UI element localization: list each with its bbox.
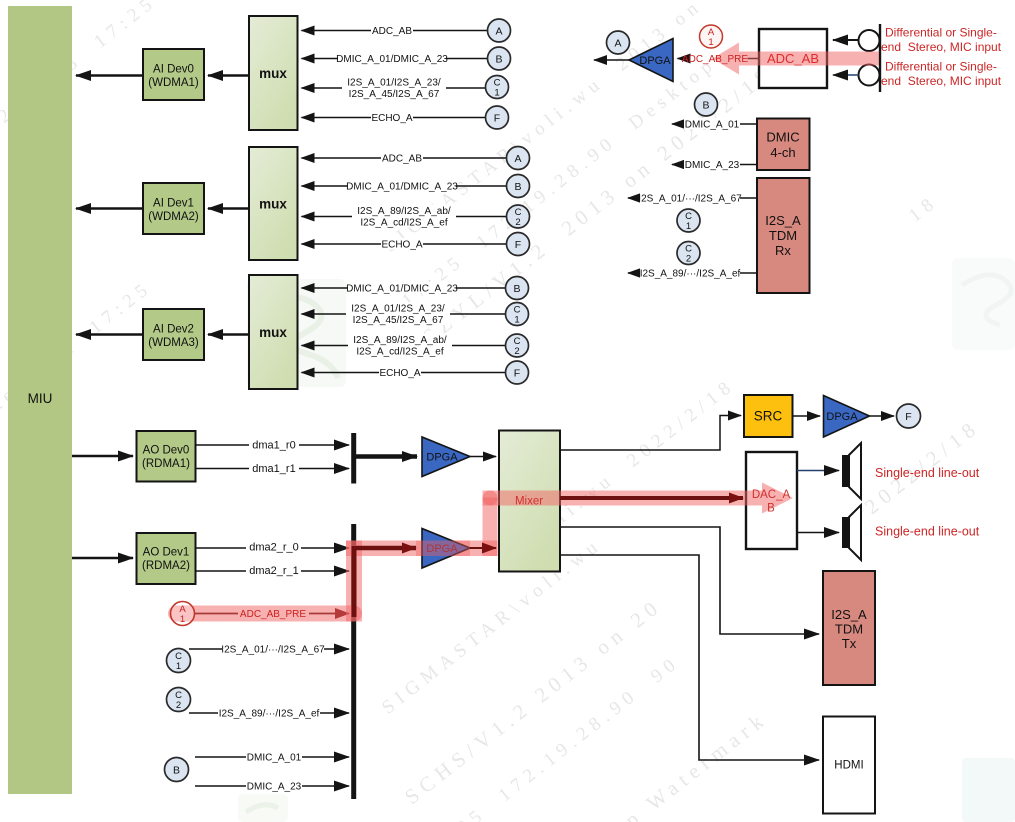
svg-text:B: B: [173, 764, 180, 776]
svg-text:1: 1: [180, 614, 185, 625]
svg-text:4-ch: 4-ch: [770, 145, 795, 160]
svg-text:ECHO_A: ECHO_A: [379, 368, 420, 379]
wire ADC_AB into mux1: [302, 30, 488, 32]
svg-text:mux: mux: [259, 66, 287, 81]
node A (mux2): [507, 147, 530, 170]
svg-text:AI Dev1: AI Dev1: [153, 198, 194, 210]
svg-text:A: A: [514, 153, 521, 165]
watermark text layer: [0, 0, 162, 147]
svg-text:DPGA: DPGA: [639, 55, 671, 67]
svg-text:B: B: [767, 503, 775, 515]
op-amp DPGA (input stage, points left): [629, 39, 673, 82]
mic input circle 2: [859, 65, 880, 86]
wire dma2_r_0: [196, 547, 350, 549]
wire AI Dev2 to MIU: [76, 333, 143, 336]
bus bar 2: [351, 524, 356, 799]
svg-text:TDM: TDM: [769, 228, 797, 243]
svg-text:(WDMA2): (WDMA2): [148, 211, 199, 223]
svg-text:(RDMA2): (RDMA2): [142, 560, 190, 572]
svg-text:DPGA: DPGA: [426, 452, 458, 464]
svg-text:Single-end line-out: Single-end line-out: [875, 466, 980, 480]
svg-text:2: 2: [514, 346, 519, 357]
block I2S_A TDM Tx: [823, 571, 875, 685]
svg-text:2: 2: [515, 217, 520, 228]
wire I2S_A_01..67 into mux3: [302, 313, 506, 315]
svg-text:Differential or Single-: Differential or Single-: [885, 26, 997, 40]
op-amp DPGA (playback path 2, highlighted): [422, 529, 470, 569]
block AI Dev1 (WDMA2): [143, 183, 204, 234]
wire DMIC_A_01/DMIC_A_23 into mux2: [302, 185, 507, 187]
wire mic1 to ADC_AB: [833, 39, 859, 41]
svg-text:mux: mux: [259, 197, 287, 212]
faint logo watermark bottom-right corner: [962, 758, 1015, 822]
wire DMIC_A_01/DMIC_A_23 into mux3: [302, 287, 506, 289]
block AI Dev0 (WDMA1): [143, 49, 204, 100]
node C1 (bottom): [167, 649, 191, 673]
dark red overlay on bus2: [352, 546, 357, 617]
svg-text:DAC_A: DAC_A: [752, 489, 791, 501]
wire DPGA output to node A: [594, 59, 629, 61]
svg-text:dma1_r0: dma1_r0: [252, 440, 295, 452]
highlight band over DPGA2: [416, 541, 470, 557]
wire ADC_AB_PRE to bus2 (under highlight): [195, 613, 239, 615]
mic input bus line: [879, 24, 881, 92]
svg-text:1: 1: [514, 315, 519, 326]
wire DAC to speaker 2: [797, 532, 839, 534]
svg-text:AI Dev2: AI Dev2: [153, 324, 194, 336]
block AO Dev1 (RDMA2): [137, 533, 196, 584]
svg-text:DMIC_A_01/DMIC_A_23: DMIC_A_01/DMIC_A_23: [346, 182, 458, 193]
wire DMIC_A_23 out: [672, 164, 757, 166]
svg-text:I2S_A_45/I2S_A_67: I2S_A_45/I2S_A_67: [353, 315, 444, 326]
svg-text:DMIC_A_23: DMIC_A_23: [247, 782, 302, 793]
block AO Dev0 (RDMA1): [137, 431, 196, 482]
svg-text:I2S_A_01/···/I2S_A_67: I2S_A_01/···/I2S_A_67: [638, 194, 742, 205]
svg-text:ECHO_A: ECHO_A: [371, 113, 412, 124]
wire AI Dev0 to MIU: [76, 74, 143, 77]
svg-text:1: 1: [494, 88, 499, 99]
block Mixer: [499, 431, 560, 572]
highlight band ADC_AB_PRE (top): [713, 43, 880, 75]
svg-text:AI Dev0: AI Dev0: [153, 64, 194, 76]
svg-text:AO Dev0: AO Dev0: [143, 445, 190, 457]
svg-text:(RDMA1): (RDMA1): [142, 458, 190, 470]
speaker 2: [842, 505, 861, 560]
node C2 (mux3): [506, 334, 529, 357]
wire ECHO_A into mux3: [302, 372, 506, 374]
wire dma1_r1: [196, 468, 350, 470]
block DAC_AB: [746, 452, 797, 549]
node F (output): [897, 404, 921, 428]
wire I2S_A_89..ef into mux3: [302, 345, 506, 347]
svg-text:2: 2: [176, 700, 181, 711]
wire DMIC_A_23 to bus2: [195, 785, 349, 787]
svg-text:A: A: [614, 37, 621, 49]
svg-text:I2S_A_89/I2S_A_ab/: I2S_A_89/I2S_A_ab/: [353, 335, 447, 346]
block SRC: [744, 395, 793, 437]
svg-text:dma2_r_0: dma2_r_0: [249, 542, 299, 554]
svg-text:B: B: [702, 99, 709, 111]
faint logo watermark right edge: [952, 258, 1015, 350]
svg-text:dma2_r_1: dma2_r_1: [249, 565, 299, 577]
svg-text:ECHO_A: ECHO_A: [381, 240, 422, 251]
svg-text:DMIC_A_01: DMIC_A_01: [685, 120, 740, 131]
node B (mux2): [507, 175, 530, 198]
svg-text:F: F: [515, 239, 521, 251]
svg-text:I2S_A_cd/I2S_A_ef: I2S_A_cd/I2S_A_ef: [360, 218, 448, 229]
svg-text:Differential or Single-: Differential or Single-: [885, 60, 997, 74]
node A (mux1): [488, 19, 511, 42]
svg-text:I2S_A_cd/I2S_A_ef: I2S_A_cd/I2S_A_ef: [356, 347, 444, 358]
svg-text:DMIC_A_23: DMIC_A_23: [685, 160, 740, 171]
wire dma2_r_1: [196, 570, 350, 572]
wire I2S_A_89..ef into mux2: [302, 216, 507, 218]
svg-text:ADC_AB_PRE: ADC_AB_PRE: [240, 609, 306, 620]
svg-text:I2S_A_45/I2S_A_67: I2S_A_45/I2S_A_67: [349, 89, 440, 100]
block DMIC 4-ch: [757, 119, 810, 171]
node A1 (bottom, red): [171, 602, 195, 626]
wire DPGA2 to Mixer (dark red): [470, 547, 496, 549]
block HDMI: [823, 717, 875, 814]
wire mux1 to AI Dev0: [208, 74, 249, 77]
node B (DMIC): [695, 93, 718, 116]
block mux3: [249, 275, 298, 389]
node F (mux3): [506, 361, 529, 384]
wire I2S_A_89...ef out: [628, 272, 757, 274]
node A (ADC output): [607, 31, 630, 54]
wire mux2 to AI Dev1: [208, 207, 249, 210]
highlight arrowhead into DAC_AB: [762, 483, 793, 514]
svg-text:TDM: TDM: [835, 622, 863, 637]
svg-text:F: F: [494, 112, 500, 124]
wire mux3 to AI Dev2: [208, 333, 249, 336]
svg-text:I2S_A_89/I2S_A_ab/: I2S_A_89/I2S_A_ab/: [357, 206, 451, 217]
svg-text:1: 1: [686, 221, 691, 232]
op-amp DPGA (SRC output): [824, 396, 870, 438]
wire SRC to DPGA3: [793, 415, 821, 417]
svg-text:Single-end line-out: Single-end line-out: [875, 525, 980, 539]
svg-text:ADC_AB: ADC_AB: [372, 26, 412, 37]
wire I2S_A_01...67 to bus2: [189, 648, 349, 650]
node B (mux1): [488, 47, 511, 70]
block mux1: [249, 16, 298, 130]
wire Mixer to DAC_AB (dark red): [560, 496, 743, 500]
block I2S_A TDM Rx: [757, 178, 810, 293]
node C2 (Rx): [677, 242, 700, 265]
svg-text:DMIC_A_01/DMIC_A_23: DMIC_A_01/DMIC_A_23: [336, 54, 448, 65]
MIU memory bar: [8, 6, 72, 794]
svg-text:DMIC: DMIC: [766, 130, 799, 145]
svg-text:DMIC_A_01/DMIC_A_23: DMIC_A_01/DMIC_A_23: [346, 284, 458, 295]
node F (mux2): [507, 233, 530, 256]
node C1 (mux3): [506, 303, 529, 326]
svg-text:ADC_AB_PRE: ADC_AB_PRE: [682, 54, 748, 65]
svg-text:B: B: [514, 181, 521, 193]
wire ADC_AB to DPGA (thin, under highlight): [748, 58, 760, 60]
svg-text:ADC_AB: ADC_AB: [767, 51, 819, 66]
svg-text:SRC: SRC: [754, 409, 783, 424]
wire I2S_A_89...ef to bus2: [189, 712, 349, 714]
op-amp DPGA (playback path 1): [422, 437, 470, 477]
svg-text:I2S_A_01/I2S_A_23/: I2S_A_01/I2S_A_23/: [351, 304, 445, 315]
wire DAC to speaker 1: [797, 470, 839, 472]
svg-text:1: 1: [708, 37, 713, 48]
svg-text:I2S_A: I2S_A: [765, 213, 801, 228]
svg-text:B: B: [513, 283, 520, 295]
svg-text:B: B: [495, 53, 502, 65]
node F (mux1): [486, 106, 509, 129]
svg-text:I2S_A_01/···/I2S_A_67: I2S_A_01/···/I2S_A_67: [221, 645, 325, 656]
wire DMIC_A_01 out: [672, 123, 757, 125]
svg-text:(WDMA1): (WDMA1): [148, 77, 199, 89]
svg-text:Mixer: Mixer: [515, 496, 543, 508]
svg-text:A: A: [495, 25, 502, 37]
node C1 (mux1): [486, 76, 509, 99]
wire bus2 to DPGA2 (dark red thick): [356, 546, 416, 551]
speaker 1: [842, 443, 861, 499]
block AI Dev2 (WDMA3): [143, 309, 204, 360]
svg-text:I2S_A_89/···/I2S_A_ef: I2S_A_89/···/I2S_A_ef: [219, 709, 320, 720]
node A1 (red): [700, 25, 723, 48]
wire DPGA3 to node F: [870, 415, 895, 417]
node B (bottom): [165, 758, 189, 782]
wire bus1 to DPGA (thick): [356, 454, 417, 459]
block mux2: [249, 147, 298, 260]
svg-text:ADC_AB: ADC_AB: [382, 154, 422, 165]
svg-text:Rx: Rx: [775, 243, 791, 258]
wire ADC_AB into mux2: [302, 157, 507, 159]
svg-text:I2S_A_01/I2S_A_23/: I2S_A_01/I2S_A_23/: [347, 78, 441, 89]
svg-text:dma1_r1: dma1_r1: [252, 463, 295, 475]
faint logo watermark behind mux3: [247, 279, 346, 387]
svg-text:Tx: Tx: [842, 636, 857, 651]
node B (mux3): [506, 277, 529, 300]
mic input circle 1: [859, 30, 880, 51]
wire ECHO_A into mux1: [302, 117, 488, 119]
svg-text:(WDMA3): (WDMA3): [148, 337, 199, 349]
svg-text:MIU: MIU: [28, 391, 53, 406]
wire Mixer to I2S TDM Tx: [560, 527, 819, 634]
svg-text:F: F: [905, 411, 911, 423]
wire DMIC_A_01 to bus2: [195, 756, 349, 758]
wire mic2 to ADC_AB: [833, 74, 859, 76]
svg-text:1: 1: [176, 661, 181, 672]
wire dma1_r0: [196, 444, 350, 446]
svg-text:end Stereo, MIC input: end Stereo, MIC input: [881, 40, 1002, 54]
svg-text:AO Dev1: AO Dev1: [143, 547, 190, 559]
node C2 (mux2): [507, 205, 530, 228]
svg-text:2: 2: [686, 254, 691, 265]
svg-text:DPGA: DPGA: [826, 411, 858, 423]
wire Mixer to HDMI: [560, 555, 819, 760]
svg-text:I2S_A: I2S_A: [831, 607, 867, 622]
wire MIU to AO Dev0: [72, 455, 133, 458]
wire DMIC_A_01/DMIC_A_23 into mux1: [302, 58, 488, 60]
svg-text:mux: mux: [259, 325, 287, 340]
node C2 (bottom): [167, 688, 191, 712]
wire ECHO_A into mux2: [302, 243, 507, 245]
wire Mixer to SRC: [560, 416, 741, 451]
wire AI Dev1 to MIU: [76, 207, 143, 210]
wire I2S_A_01...67 out: [628, 197, 757, 199]
wire DPGA1 to Mixer: [470, 456, 496, 458]
svg-text:DMIC_A_01: DMIC_A_01: [247, 753, 302, 764]
svg-text:I2S_A_89/···/I2S_A_ef: I2S_A_89/···/I2S_A_ef: [640, 269, 741, 280]
block ADC_AB: [759, 29, 827, 88]
svg-text:HDMI: HDMI: [834, 760, 863, 772]
wire MIU to AO Dev1: [72, 557, 133, 560]
node C1 (Rx): [677, 209, 700, 232]
bus bar 1: [351, 433, 356, 484]
svg-text:end Stereo, MIC input: end Stereo, MIC input: [881, 74, 1002, 88]
wire I2S_A_01..67 into mux1: [302, 87, 488, 89]
svg-text:F: F: [514, 367, 520, 379]
highlight band bottom path: [168, 606, 362, 622]
faint logo watermark bottom-left: [238, 794, 288, 822]
